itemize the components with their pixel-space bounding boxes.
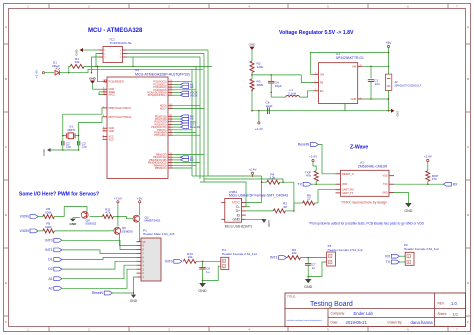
ground USB [261,219,270,226]
wire USB D- [246,206,250,208]
power +2.4V left [35,70,45,78]
svg-text:2: 2 [88,5,90,9]
svg-text:68: 68 [284,205,288,209]
svg-text:GND: GND [267,220,271,226]
svg-text:1: 1 [27,328,29,332]
svg-text:1: 1 [27,5,29,9]
svg-text:PC6(/RESET): PC6(/RESET) [109,81,125,84]
svg-text:Company:: Company: [331,312,346,316]
svg-text:GND: GND [351,98,357,101]
wires U4 to bus [173,82,205,168]
wire bottom rail VR [251,110,391,112]
svg-text:1.0: 1.0 [451,301,457,306]
wire R3 bottom [251,89,253,110]
wire R1 leads [69,66,212,73]
LED D1 [52,61,60,75]
wire U4 AREF [99,92,103,95]
wire C4 to L1 [271,92,286,97]
svg-text:Header Female 2.54_1x2: Header Female 2.54_1x2 [328,248,363,252]
wire PB7 to crystal [79,117,103,136]
ground P4 [198,281,207,294]
svg-text:GND: GND [75,49,79,55]
svg-text:3: 3 [168,5,170,9]
svg-text:22: 22 [307,197,311,201]
svg-text:A: A [5,25,7,29]
net flag INT0 p4 [165,259,182,263]
svg-text:TITLE:: TITLE: [287,295,296,299]
power +2.4V zwave right [424,154,432,171]
resistor R9 10k [288,248,327,260]
svg-text:SW: SW [352,65,357,68]
svg-text:V3OK: V3OK [190,93,198,97]
svg-text:Drawn By:: Drawn By: [388,321,403,325]
svg-text:B: B [5,77,7,81]
ground P3 [304,277,313,290]
resistor R6 100k [38,207,64,218]
svg-text:INT0: INT0 [45,238,52,242]
svg-text:22p: 22p [82,145,87,149]
svg-text:Header Female 2.54_1x2: Header Female 2.54_1x2 [222,252,257,256]
svg-text:120k: 120k [257,65,264,69]
section title Z-Wave [350,145,368,151]
net flag INT1 p3 [270,256,287,260]
svg-text:C: C [467,145,470,149]
svg-text:MCU - ATMEGA328: MCU - ATMEGA328 [88,28,143,34]
svg-text:VSS: VSS [382,175,387,178]
wire U3 gnd pin stub [344,104,346,111]
resistor R1 10k [70,57,84,68]
svg-text:E: E [467,281,469,285]
svg-text:oshwlab.com/dana.hanna/testing: oshwlab.com/dana.hanna/testing-board ... [287,319,325,322]
svg-text:Micro USB-B 5P Female-SMT_C409: Micro USB-B 5P Female-SMT_C40943 [229,194,288,198]
svg-text:4: 4 [248,328,250,332]
svg-text:ResetN: ResetN [190,125,200,129]
svg-text:380k: 380k [257,83,264,87]
svg-text:EN: EN [320,90,324,93]
svg-text:2.2uH: 2.2uH [288,92,296,96]
resistor R3 380k [250,79,264,89]
svg-text:7: 7 [456,5,458,9]
connector USB1 Micro USB-B [221,190,288,229]
resistor R8 22 [294,194,318,206]
svg-text:+5V: +5V [137,196,142,200]
svg-text:A: A [467,25,469,29]
net flags and wires to P1 [45,238,136,290]
net flag ResetN zwave [298,143,319,147]
svg-text:100k: 100k [45,225,52,229]
title block [285,293,466,327]
svg-text:GND: GND [89,77,97,81]
wire USB D+ to R3 [246,210,273,212]
svg-text:10pF: 10pF [275,84,282,88]
connector P3 Header Female 2.54_1x2 [327,244,363,266]
svg-text:GND: GND [42,149,46,155]
svg-text:2019-05-21: 2019-05-21 [346,320,368,325]
wire RXP to U2 [394,181,443,185]
IC U1 ZM5304AE-CME3R [336,160,395,196]
capacitor C4 10pF [268,75,282,93]
svg-text:MMBT5401: MMBT5401 [145,219,161,223]
svg-text:ResetN: ResetN [298,143,310,147]
wire R2-R3 junction [251,73,301,80]
wire bus3 [200,182,247,207]
connector P1 Header Male 2.54_2x5 [137,229,175,282]
svg-text:ADC7: ADC7 [160,107,167,110]
svg-text:VDD: VDD [342,183,347,186]
svg-text:Testing Board: Testing Board [310,301,353,308]
ground Q4 [69,218,79,227]
note pullups [309,222,425,226]
svg-text:PB6(XTAL1/TOSC1): PB6(XTAL1/TOSC1) [109,107,132,110]
wire U2 gnd [394,192,408,203]
svg-text:D2: D2 [48,267,52,271]
svg-text:100k: 100k [45,210,52,214]
svg-text:VIN: VIN [320,73,324,76]
svg-text:A2: A2 [48,286,52,290]
wire D1 to junction [60,72,70,74]
svg-text:PB7(XTAL2/TOSC2): PB7(XTAL2/TOSC2) [109,116,132,119]
capacitor C3 22p [77,136,87,151]
bus vertical 2 [195,66,197,176]
svg-text:GND: GND [396,111,400,117]
svg-text:4MHz: 4MHz [67,128,76,132]
svg-text:+2.4V: +2.4V [35,70,39,78]
wire L1 to U3 [299,91,313,97]
net flag V3ON 2 [20,229,39,233]
svg-text:10k: 10k [188,255,193,259]
ground flag right VR [391,109,400,117]
wire +2.4V to D1 [45,72,54,74]
svg-text:TC2030-IDC-NL: TC2030-IDC-NL [110,41,133,45]
svg-text:6: 6 [407,5,409,9]
svg-text:A1: A1 [48,277,52,281]
wire RESET to MCU [98,66,107,82]
wire USB VCC [246,202,262,204]
resistor R5 100k [38,222,54,233]
svg-text:Sheet:: Sheet: [438,312,447,316]
svg-text:SS8052: SS8052 [85,221,96,225]
svg-text:TX0: TX0 [383,183,388,186]
svg-text:GND: GND [198,289,207,293]
svg-text:Date:: Date: [331,321,339,325]
svg-text:dana.hanna: dana.hanna [411,320,434,325]
svg-text:V3ON: V3ON [20,215,30,219]
svg-text:GND: GND [130,299,138,303]
svg-text:GND: GND [304,285,313,289]
svg-text:PB5(SCK): PB5(SCK) [155,167,167,170]
svg-text:SS8050: SS8050 [122,229,133,233]
svg-text:GND: GND [109,130,115,133]
svg-text:FB: FB [320,82,324,85]
svg-text:PD7(AIN1): PD7(AIN1) [154,134,166,137]
ground crystal [42,148,51,156]
svg-text:GND: GND [232,218,240,222]
svg-text:2Red: 2Red [52,64,60,68]
svg-text:3: 3 [168,328,170,332]
svg-text:5: 5 [327,328,329,332]
svg-text:INT1: INT1 [270,256,277,260]
svg-text:4: 4 [248,5,250,9]
svg-text:47k: 47k [306,174,311,178]
ground P1 [130,293,138,303]
svg-text:+2.4V: +2.4V [309,154,317,158]
ground above U4 [89,77,102,90]
power +5V [386,41,393,53]
svg-text:47k: 47k [105,211,110,215]
wire junction to U3 pin2 [301,75,313,83]
resistor R4 1.5k [261,172,294,211]
wire +2.4V rail right [69,69,203,73]
svg-text:7: 7 [456,328,458,332]
svg-text:GND: GND [382,191,388,194]
wire bus4 [192,175,208,177]
svg-text:PC5(ADC5/SCL): PC5(ADC5/SCL) [148,94,167,97]
section title Voltage Regulator [279,30,354,36]
svg-text:MCU-ATMEGA328P-AU(TQFP32): MCU-ATMEGA328P-AU(TQFP32) [135,72,190,76]
capacitor C7 1u [305,258,316,278]
ground near TC1 [75,48,84,56]
wire crystal gnd rail [49,149,79,151]
svg-text:C: C [5,145,8,149]
resistor R10 10k [183,252,221,263]
svg-text:V3ON: V3ON [20,229,30,233]
power +2.4V below VR [255,111,263,131]
IC U3 AP3429AKTTR-G1 [314,52,365,104]
resistor R11 47k [90,207,119,218]
svg-text:B: B [467,77,469,81]
svg-text:RESET_N: RESET_N [342,173,354,176]
svg-text:Header Male 2.54_2x5: Header Male 2.54_2x5 [143,232,175,236]
svg-text:INT1: INT1 [45,248,52,252]
wire +5V down [388,52,390,67]
svg-text:RX: RX [453,182,458,186]
battery holder BT1 [385,66,421,99]
connector P2 Header Female 2.54_1x2 [404,243,439,265]
wire U3 gnd rail [363,98,390,110]
wire R6 to Q4 loop [64,207,87,217]
bus vertical 5 [127,50,208,176]
svg-text:47k: 47k [432,177,437,181]
svg-text:ZM5304AE-CME3R: ZM5304AE-CME3R [358,164,388,168]
transistor Q3 MMBT5401 [118,215,161,223]
capacitor C6 10uF [266,101,273,115]
bus vertical 3 [127,57,200,179]
svg-text:10k: 10k [75,60,80,64]
capacitor C8 1u [199,261,210,281]
wire bus2 [204,179,284,183]
svg-text:F: F [467,320,469,324]
svg-text:TX: TX [386,260,391,264]
svg-text:+5V: +5V [386,41,393,45]
svg-text:ResetN: ResetN [92,291,104,295]
wire R5 to Q6 [54,230,110,232]
wire TXP bottom [311,181,335,185]
resistor RXP 47k [426,171,438,182]
svg-text:RX: RX [385,254,390,258]
svg-text:E: E [5,281,7,285]
wire C8 to P4 pin2 [203,266,221,280]
wire USB GND [246,218,264,220]
power +2.4V mid [249,168,257,177]
resistor R2 120k [250,55,264,73]
wire bus1 to VCC net [208,175,262,202]
wire TC1 pin wires [83,50,134,73]
svg-text:1/1: 1/1 [453,311,459,316]
section title MCU [88,28,143,34]
power +7.6V [114,196,122,216]
svg-text:AVCC: AVCC [109,94,116,97]
wire U3 SW rail [363,66,389,68]
svg-text:Micro USB-B(SMT): Micro USB-B(SMT) [225,225,252,229]
capacitor C1 10u [368,66,380,99]
net flag ResetN bottom [92,277,137,295]
net flags right of U4 [173,83,200,163]
svg-text:22p: 22p [66,145,71,149]
svg-text:10k: 10k [292,251,297,255]
net flag RX zwave [443,182,458,186]
section title Some IO [19,192,99,198]
wire ResetN to U2 [319,145,336,174]
power +5V io [137,196,142,214]
svg-text:D: D [467,213,470,217]
svg-text:AP3429AKTTR-G1: AP3429AKTTR-G1 [336,56,364,60]
svg-text:10u: 10u [375,82,380,86]
svg-text:2040002GT-C021B01-LF: 2040002GT-C021B01-LF [394,85,421,88]
wire PB6 to crystal [63,108,103,136]
bus vertical 1 [191,69,193,176]
crystal X1 [62,125,79,139]
svg-text:1u: 1u [206,270,210,274]
svg-text:+2.4V: +2.4V [255,127,263,131]
svg-text:INT0: INT0 [165,259,172,263]
ground top VR [249,42,257,55]
net flag RX p2 [385,254,405,258]
svg-text:6: 6 [407,328,409,332]
svg-text:GND: GND [69,222,77,226]
net flag TX zwave [298,182,312,186]
svg-text:F: F [5,320,7,324]
svg-text:TX: TX [298,182,303,186]
wire U3 pin1 to top rail [310,52,388,74]
net flag TX p2 [386,260,405,264]
inductor L1 2.2uH [286,88,300,97]
svg-text:1u: 1u [312,266,316,270]
svg-text:Header Female 2.54_1x2: Header Female 2.54_1x2 [404,247,439,251]
note TX/RX reserved [341,200,387,204]
svg-text:*Pull up/downs added for possi: *Pull up/downs added for possible tests.… [309,222,425,226]
svg-text:+2.4V: +2.4V [249,168,257,172]
svg-text:TX/RX reserved here by design: TX/RX reserved here by design [341,200,387,204]
svg-text:D1: D1 [48,258,52,262]
svg-text:+7.6V: +7.6V [114,196,122,200]
svg-text:D: D [5,213,8,217]
power +2.4V zwave left [309,154,317,171]
resistor TXP 47k [305,170,318,181]
svg-text:Some I/O Here? PWM for Servos?: Some I/O Here? PWM for Servos? [19,192,99,198]
transistor Q6 SS8050 [110,217,133,235]
svg-text:Voltage Regulator 5.5V -> 1.8V: Voltage Regulator 5.5V -> 1.8V [279,30,354,36]
connector P4 Header Female 2.54_1x2 [221,248,257,269]
wire Q3/Q6 to P1 [120,222,140,246]
svg-text:Ender Lab: Ender Lab [354,311,374,316]
svg-text:Z-Wave: Z-Wave [350,145,368,151]
svg-text:5: 5 [327,5,329,9]
transistor Q4 SS8052 [81,211,96,225]
IC U4 MCU-ATMEGA328P-AU(TQFP32) [103,68,190,179]
svg-text:UART_TX: UART_TX [342,192,354,195]
wire R8 to U2 [318,190,336,203]
capacitor C2 22p [62,136,72,151]
svg-text:GND: GND [404,209,412,213]
svg-text:3V: 3V [394,80,397,84]
resistor R3 68 [273,201,294,213]
svg-text:+2.4V: +2.4V [424,154,432,158]
svg-text:2: 2 [88,328,90,332]
svg-text:VCC: VCC [109,138,114,141]
svg-text:1.5k: 1.5k [269,176,275,180]
svg-text:REV:: REV: [438,302,445,306]
svg-text:GND: GND [249,42,257,46]
ground zwave [404,203,412,213]
wire R3 to R8 [293,203,295,211]
wire C7 to P3 pin2 [308,262,327,277]
net flag V3ON 1 [20,215,39,219]
bus vertical 4 [127,53,204,182]
svg-text:10uF: 10uF [266,104,273,108]
connector TC1 TC2030-IDC-NL [99,38,133,63]
